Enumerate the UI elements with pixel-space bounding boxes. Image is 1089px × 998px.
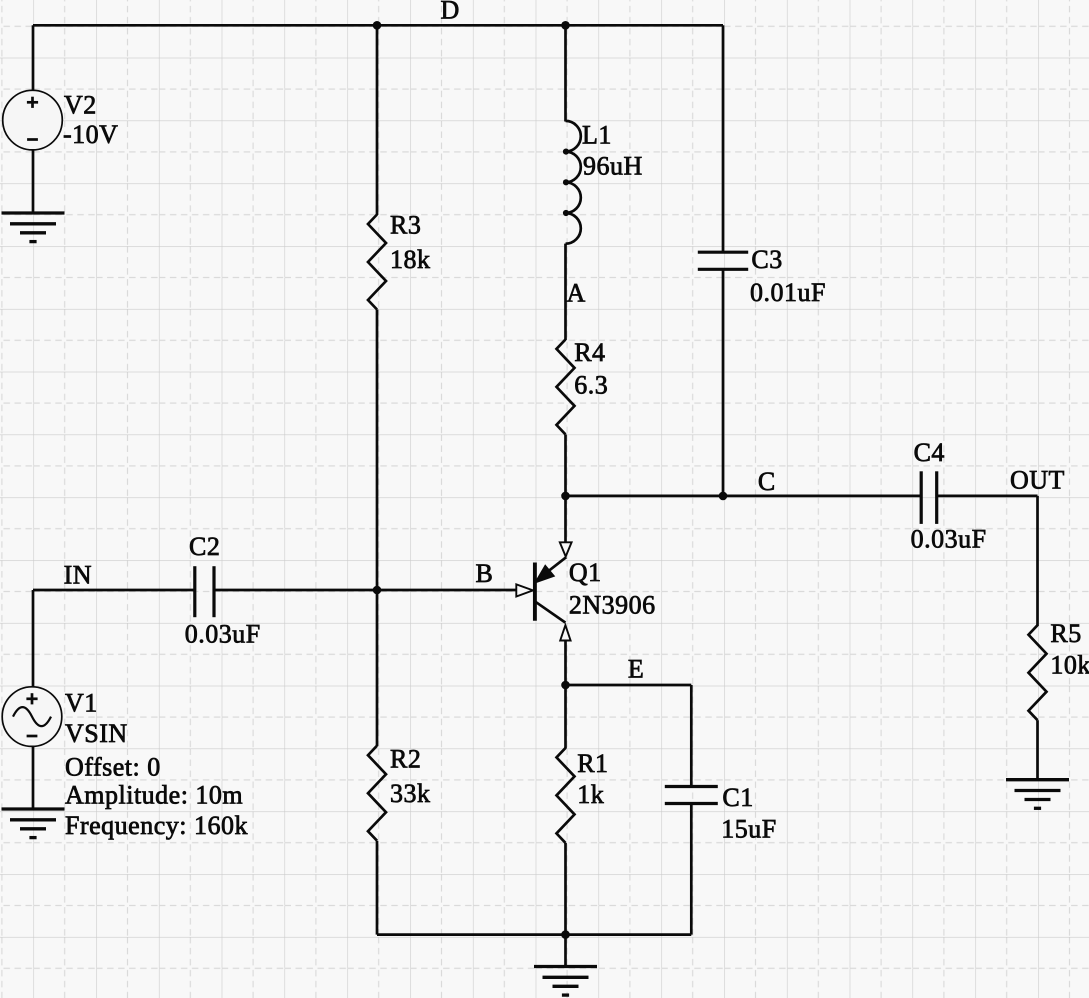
svg-text:R4: R4 [574, 338, 605, 367]
svg-text:R1: R1 [577, 749, 608, 778]
svg-text:OUT: OUT [1010, 465, 1065, 494]
svg-text:-10V: -10V [63, 120, 118, 149]
svg-text:33k: 33k [390, 779, 431, 808]
svg-text:2N3906: 2N3906 [569, 591, 656, 620]
svg-text:A: A [567, 279, 586, 308]
svg-text:Amplitude: 10m: Amplitude: 10m [65, 781, 243, 810]
svg-text:IN: IN [64, 561, 92, 590]
svg-text:15uF: 15uF [721, 815, 776, 844]
svg-text:C: C [758, 467, 776, 496]
svg-text:Q1: Q1 [569, 558, 602, 587]
svg-text:R2: R2 [390, 744, 421, 773]
svg-text:R3: R3 [390, 211, 421, 240]
svg-text:C4: C4 [914, 438, 945, 467]
svg-text:D: D [441, 0, 460, 25]
svg-text:18k: 18k [390, 245, 431, 274]
svg-text:96uH: 96uH [583, 152, 643, 181]
svg-text:V2: V2 [64, 91, 97, 120]
svg-text:1k: 1k [577, 780, 604, 809]
svg-text:L1: L1 [582, 121, 612, 150]
svg-text:R5: R5 [1050, 619, 1081, 648]
svg-text:0.01uF: 0.01uF [750, 278, 826, 307]
svg-text:C3: C3 [751, 245, 782, 274]
svg-text:B: B [476, 559, 494, 588]
svg-text:V1: V1 [65, 689, 98, 718]
svg-text:10k: 10k [1050, 651, 1089, 680]
svg-text:VSIN: VSIN [65, 719, 128, 748]
svg-text:0.03uF: 0.03uF [185, 620, 261, 649]
svg-text:E: E [628, 655, 644, 684]
svg-text:0.03uF: 0.03uF [911, 524, 987, 553]
svg-text:C2: C2 [189, 532, 220, 561]
svg-text:6.3: 6.3 [574, 371, 608, 400]
svg-text:C1: C1 [722, 783, 753, 812]
svg-text:Offset: 0: Offset: 0 [65, 753, 161, 782]
svg-text:Frequency: 160k: Frequency: 160k [65, 811, 248, 840]
